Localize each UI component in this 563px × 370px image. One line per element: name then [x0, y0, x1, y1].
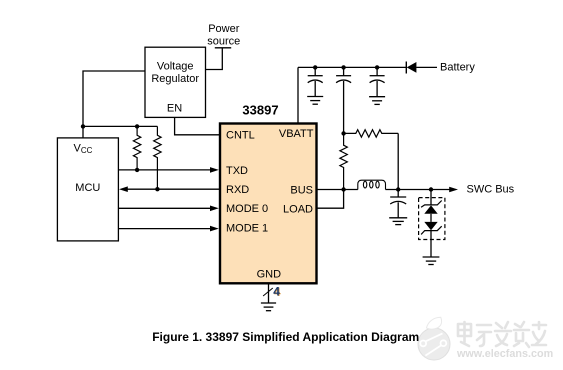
svg-text:Voltage: Voltage: [157, 61, 194, 73]
capacitor C2: [336, 67, 351, 133]
svg-text:www.elecfans.com: www.elecfans.com: [456, 348, 553, 360]
ground C3: [369, 97, 385, 105]
junction rail C2: [341, 65, 345, 69]
watermark logo elecfans: [418, 317, 450, 360]
svg-text:33897: 33897: [242, 103, 278, 118]
wire MODE 0: [118, 207, 211, 209]
junction TXD/R1: [135, 168, 139, 172]
junction RXD/R2: [155, 187, 159, 191]
junction C4 node: [396, 187, 400, 191]
resistor R2 pull-up RXD: [154, 126, 161, 189]
dashed box TVS: [419, 198, 445, 240]
svg-text:Regulator: Regulator: [151, 73, 199, 85]
svg-text:MODE 0: MODE 0: [226, 203, 268, 215]
inductor L1: [358, 180, 386, 189]
svg-text:EN: EN: [167, 103, 182, 115]
wire diode to battery label: [416, 66, 437, 68]
wire TXD: [118, 169, 211, 171]
power source terminal bar: [215, 47, 231, 49]
svg-text:TXD: TXD: [226, 165, 248, 177]
wire GND pin: [268, 284, 270, 303]
junction rail C3: [375, 65, 379, 69]
wire R3 down to bus: [397, 133, 399, 189]
svg-text:GND: GND: [257, 269, 282, 281]
arrow TXD: [210, 167, 219, 173]
ground C4: [389, 218, 407, 225]
wire RXD: [127, 188, 219, 190]
svg-text:LOAD: LOAD: [283, 204, 313, 216]
junction TVS node: [429, 187, 433, 191]
arrow SWC bus: [449, 187, 458, 193]
wire bus after inductor: [386, 189, 454, 191]
wire EN to CNTL: [175, 117, 219, 134]
wire battery rail: [298, 66, 406, 68]
capacitor C4: [390, 190, 406, 218]
resistor R4 vertical: [340, 133, 347, 189]
zener bar bottom: [421, 226, 442, 234]
capacitor C1: [308, 67, 323, 96]
MCU box: [57, 138, 118, 241]
wire power source to regulator: [206, 48, 223, 70]
wire MODE 1: [118, 228, 211, 230]
svg-text:Figure 1. 33897 Simplified App: Figure 1. 33897 Simplified Application D…: [152, 330, 419, 344]
junction R1 top: [135, 124, 139, 128]
svg-text:Battery: Battery: [440, 61, 475, 73]
TVS D2 dual zener: [421, 190, 442, 258]
svg-text:MCU: MCU: [75, 182, 100, 194]
wire LOAD: [317, 190, 344, 209]
wire Vcc rail to pull-up resistors: [83, 125, 157, 127]
junction BUS node: [341, 187, 345, 191]
junction rail C1: [313, 65, 317, 69]
capacitor C3: [370, 67, 385, 96]
junction R3/R4 node: [341, 131, 345, 135]
zener bar top: [421, 201, 442, 208]
arrow MODE 0: [210, 206, 219, 212]
resistor R1 pull-up TXD: [133, 126, 140, 169]
junction Vcc rail: [81, 124, 85, 128]
svg-text:SWC Bus: SWC Bus: [467, 184, 515, 196]
voltage regulator box: [145, 47, 206, 117]
svg-text:RXD: RXD: [226, 184, 249, 196]
ground C1: [307, 97, 323, 105]
IC U1 33897 body: [220, 103, 317, 284]
wire VBATT riser: [297, 67, 299, 123]
wire regulator output to Vcc: [83, 71, 145, 138]
bus width slash: [263, 288, 273, 296]
resistor R3 horizontal: [344, 130, 399, 137]
diode D1 battery: [406, 62, 416, 74]
arrow MODE 1: [210, 226, 219, 232]
svg-text:source: source: [207, 36, 240, 48]
svg-text:BUS: BUS: [290, 184, 313, 196]
arrow RXD: [119, 186, 128, 192]
ground GND: [261, 303, 276, 311]
ground TVS: [423, 257, 440, 265]
svg-text:4: 4: [273, 285, 280, 299]
svg-text:CNTL: CNTL: [226, 130, 255, 142]
svg-text:VBATT: VBATT: [279, 128, 314, 140]
svg-text:Power: Power: [208, 23, 240, 35]
wire BUS: [317, 189, 358, 191]
watermark chinese text: [458, 322, 546, 347]
svg-text:MODE 1: MODE 1: [226, 223, 268, 235]
